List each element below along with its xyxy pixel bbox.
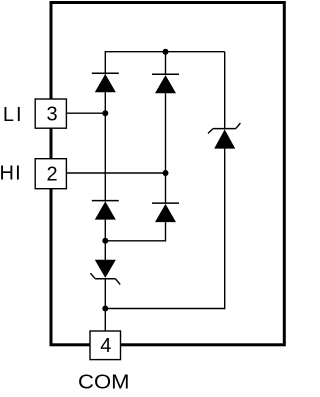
wire left column D3 anode down to zener D5 bbox=[104, 220, 106, 261]
wire horizontal joining D3/D4 anodes bbox=[105, 240, 165, 242]
junction dot D3/D4 anode row bbox=[102, 238, 108, 244]
wire right column vertical (top bus to zener D6) bbox=[224, 52, 226, 130]
diode D4 (lower mid, cathode up) bbox=[152, 203, 179, 222]
zener D5 (left column, cathode down) bbox=[90, 260, 120, 285]
svg-text:COM: COM bbox=[78, 371, 130, 393]
wire mid column top bus to D2 bbox=[165, 51, 167, 75]
wire horizontal lower bus to right column bbox=[105, 308, 224, 310]
wire mid column D4 anode down to row junction bbox=[165, 222, 167, 241]
svg-text:HI: HI bbox=[0, 163, 22, 185]
wire top horizontal bus bbox=[105, 51, 224, 53]
svg-text:4: 4 bbox=[100, 335, 111, 357]
diode D1 (top left, cathode up) bbox=[92, 73, 119, 92]
wire pin 3 to left column bbox=[66, 112, 105, 114]
diode D2 (top mid, cathode up) bbox=[152, 74, 179, 93]
wire left column D1 anode down to D3 cathode bbox=[104, 92, 106, 201]
pin 2 terminal box bbox=[35, 159, 66, 189]
diode D3 (lower left, cathode up) bbox=[92, 201, 119, 220]
junction dot lower bus bbox=[102, 306, 108, 312]
junction dot on top bus bbox=[163, 49, 169, 55]
wire left column from top bus to diode D1 bbox=[104, 51, 106, 75]
zener D6 (right column, cathode up) bbox=[208, 123, 240, 149]
pin 4 terminal box bbox=[90, 331, 121, 360]
wire pin 2 to mid column bbox=[66, 172, 165, 174]
junction dot pin 2 node bbox=[163, 170, 169, 176]
svg-text:LI: LI bbox=[3, 104, 24, 126]
svg-text:3: 3 bbox=[46, 104, 57, 126]
pin 3 terminal box bbox=[35, 99, 66, 128]
wire mid column D2 anode down to D4 cathode bbox=[165, 93, 167, 204]
IC outline box bbox=[51, 3, 284, 345]
wire left column zener D5 anode down to pin 4 bbox=[104, 279, 106, 332]
wire right column zener D6 anode to lower bus bbox=[224, 149, 226, 310]
svg-text:2: 2 bbox=[46, 164, 57, 186]
junction dot pin 3 node bbox=[102, 110, 108, 116]
